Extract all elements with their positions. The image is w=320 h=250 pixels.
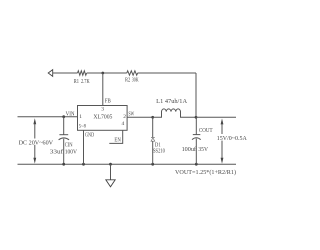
- svg-text:XL7005: XL7005: [93, 115, 112, 121]
- svg-text:2.7K: 2.7K: [81, 79, 90, 85]
- output measure arrow: [221, 119, 224, 125]
- node CIN bottom: [62, 163, 65, 166]
- node COUT bottom: [195, 163, 198, 166]
- wire: GND pin vertical: [83, 130, 85, 164]
- svg-text:DC 20V~60V: DC 20V~60V: [19, 140, 54, 146]
- capacitor CIN: [63, 117, 65, 135]
- svg-text:FB: FB: [105, 98, 111, 104]
- node SW junction: [151, 116, 154, 119]
- svg-text:35V: 35V: [198, 147, 208, 153]
- wire: FB pin vertical: [102, 73, 104, 106]
- wire: output rail: [196, 116, 236, 118]
- inductor L1: [153, 109, 196, 117]
- svg-text:R2: R2: [125, 78, 130, 84]
- wire: top feedback rail left segment: [53, 72, 78, 74]
- diode D1: [152, 117, 154, 137]
- svg-text:L1 47uh/1A: L1 47uh/1A: [156, 99, 188, 105]
- svg-text:CIN: CIN: [65, 143, 73, 149]
- arrow to output sense (hollow left arrowhead): [48, 70, 53, 77]
- wire: top rail between R1 and R2: [87, 72, 127, 74]
- wire: SW to D1/L1 node: [127, 116, 153, 118]
- wire: bottom ground rail: [18, 163, 237, 165]
- node CIN top: [62, 115, 65, 118]
- wire: EN pin: [109, 130, 122, 143]
- svg-text:5~8: 5~8: [79, 123, 87, 129]
- svg-text:15V/0~0.5A: 15V/0~0.5A: [217, 136, 248, 142]
- resistor R2: [127, 71, 138, 75]
- svg-text:1: 1: [79, 114, 82, 120]
- node ground stem: [109, 163, 112, 166]
- ground: [110, 164, 112, 180]
- node FB junction: [101, 72, 104, 75]
- wire: input rail to VIN: [18, 116, 78, 118]
- svg-text:D1: D1: [155, 142, 161, 148]
- svg-text:2: 2: [123, 114, 126, 120]
- svg-text:30K: 30K: [132, 78, 139, 84]
- input measure arrow: [33, 118, 36, 124]
- svg-text:GND: GND: [85, 133, 95, 139]
- capacitor COUT: [195, 117, 197, 134]
- node D1 bottom: [151, 163, 154, 166]
- resistor R1: [78, 71, 87, 75]
- svg-text:SW: SW: [129, 112, 135, 118]
- svg-text:R1: R1: [74, 79, 79, 85]
- svg-text:VOUT=1.25*(1+R2/R1): VOUT=1.25*(1+R2/R1): [175, 169, 236, 176]
- svg-text:SS210: SS210: [153, 149, 165, 155]
- svg-text:100uf: 100uf: [182, 146, 196, 153]
- node GND pin bottom: [82, 163, 85, 166]
- svg-text:3: 3: [101, 107, 104, 113]
- svg-text:EN: EN: [114, 138, 121, 144]
- svg-text:4: 4: [122, 121, 125, 127]
- svg-text:33uf: 33uf: [50, 148, 63, 155]
- svg-text:COUT: COUT: [199, 128, 213, 134]
- wire: right vertical from R2 down to VOUT node: [195, 73, 197, 117]
- wire: top rail right segment: [138, 72, 196, 74]
- node VOUT: [195, 116, 198, 119]
- IC U1 XL7005: [78, 106, 128, 131]
- svg-text:100V: 100V: [65, 149, 78, 155]
